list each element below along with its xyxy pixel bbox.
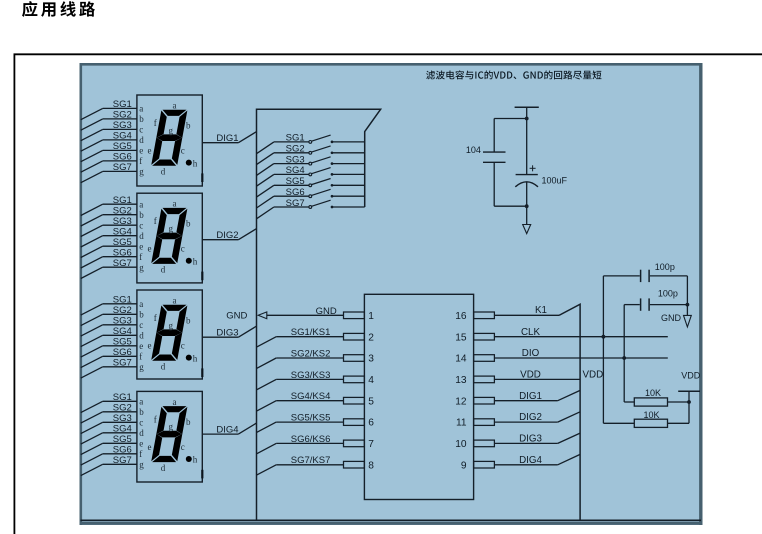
svg-text:d: d	[161, 265, 166, 275]
svg-text:c: c	[139, 320, 143, 330]
svg-text:9: 9	[461, 460, 467, 471]
svg-text:g: g	[169, 125, 174, 135]
svg-text:g: g	[169, 320, 174, 330]
svg-text:100p: 100p	[658, 289, 678, 299]
svg-text:10K: 10K	[645, 388, 661, 398]
svg-text:f: f	[139, 156, 142, 166]
svg-text:a: a	[139, 299, 143, 309]
svg-text:g: g	[139, 167, 144, 177]
svg-text:10: 10	[455, 439, 467, 450]
svg-text:SG2/KS2: SG2/KS2	[291, 349, 331, 360]
svg-text:SG6/KS6: SG6/KS6	[291, 434, 331, 445]
svg-text:e: e	[148, 340, 152, 350]
svg-text:e: e	[139, 146, 143, 156]
svg-text:DIG3: DIG3	[519, 434, 542, 445]
svg-text:f: f	[154, 216, 157, 226]
svg-text:d: d	[161, 463, 166, 473]
svg-text:SG3/KS3: SG3/KS3	[291, 370, 331, 381]
svg-text:SG6: SG6	[286, 187, 305, 198]
svg-text:d: d	[161, 167, 166, 177]
svg-text:100p: 100p	[655, 262, 675, 272]
svg-text:h: h	[193, 158, 198, 168]
svg-text:a: a	[173, 295, 177, 305]
svg-text:f: f	[154, 118, 157, 128]
svg-text:SG1/KS1: SG1/KS1	[291, 327, 331, 338]
svg-text:7: 7	[368, 439, 374, 450]
svg-text:SG4/KS4: SG4/KS4	[291, 391, 331, 402]
svg-text:DIG1: DIG1	[216, 133, 238, 144]
svg-text:b: b	[139, 407, 144, 417]
svg-text:f: f	[154, 313, 157, 323]
svg-text:a: a	[139, 397, 143, 407]
svg-text:K1: K1	[535, 305, 547, 316]
svg-text:DIG1: DIG1	[519, 391, 542, 402]
svg-text:4: 4	[368, 375, 374, 386]
svg-text:f: f	[139, 449, 142, 459]
svg-text:d: d	[139, 231, 144, 241]
svg-text:SG5/KS5: SG5/KS5	[291, 413, 331, 424]
svg-text:h: h	[193, 257, 198, 267]
svg-text:15: 15	[455, 332, 467, 343]
svg-text:1: 1	[368, 311, 374, 322]
svg-text:2: 2	[368, 332, 374, 343]
svg-text:h: h	[193, 455, 198, 465]
svg-text:SG7: SG7	[286, 198, 305, 209]
svg-text:DIG4: DIG4	[519, 455, 542, 466]
svg-text:16: 16	[455, 311, 467, 322]
svg-text:g: g	[139, 460, 144, 470]
svg-text:f: f	[139, 252, 142, 262]
svg-text:b: b	[186, 315, 191, 325]
svg-text:DIG2: DIG2	[519, 412, 542, 423]
svg-text:b: b	[139, 210, 144, 220]
svg-text:g: g	[139, 362, 144, 372]
svg-text:g: g	[139, 262, 144, 272]
svg-text:d: d	[139, 428, 144, 438]
svg-text:e: e	[148, 244, 152, 254]
svg-text:DIG4: DIG4	[216, 425, 238, 436]
svg-text:GND: GND	[316, 306, 337, 317]
svg-text:a: a	[173, 100, 177, 110]
svg-text:13: 13	[455, 375, 467, 386]
svg-text:GND: GND	[226, 310, 247, 321]
svg-text:c: c	[139, 220, 143, 230]
svg-text:DIG3: DIG3	[216, 328, 238, 339]
svg-text:CLK: CLK	[521, 327, 541, 338]
svg-text:14: 14	[455, 354, 467, 365]
svg-text:c: c	[181, 244, 185, 254]
svg-text:b: b	[139, 114, 144, 124]
svg-text:e: e	[139, 439, 143, 449]
svg-text:5: 5	[368, 396, 374, 407]
svg-text:f: f	[154, 414, 157, 424]
svg-text:3: 3	[368, 354, 374, 365]
svg-text:100uF: 100uF	[542, 176, 568, 186]
svg-text:e: e	[148, 442, 152, 452]
svg-text:10K: 10K	[643, 410, 659, 420]
svg-text:c: c	[181, 442, 185, 452]
svg-text:d: d	[139, 331, 144, 341]
svg-text:h: h	[193, 353, 198, 363]
svg-text:g: g	[169, 422, 174, 432]
svg-text:e: e	[148, 145, 152, 155]
svg-text:VDD: VDD	[681, 370, 701, 380]
svg-text:g: g	[169, 224, 174, 234]
svg-text:11: 11	[456, 418, 467, 429]
svg-text:a: a	[139, 199, 143, 209]
svg-text:DIG2: DIG2	[216, 230, 238, 241]
svg-text:GND: GND	[661, 313, 682, 323]
svg-text:b: b	[186, 120, 191, 130]
svg-text:c: c	[139, 125, 143, 135]
svg-text:SG4: SG4	[286, 165, 305, 176]
svg-text:c: c	[181, 145, 185, 155]
svg-text:6: 6	[368, 418, 374, 429]
svg-text:b: b	[186, 219, 191, 229]
svg-text:DIO: DIO	[522, 348, 540, 359]
svg-text:SG3: SG3	[286, 154, 305, 165]
svg-text:a: a	[173, 199, 177, 209]
svg-text:SG2: SG2	[286, 144, 305, 155]
svg-text:SG7/KS7: SG7/KS7	[291, 455, 331, 466]
svg-text:d: d	[139, 135, 144, 145]
svg-text:f: f	[139, 352, 142, 362]
svg-text:c: c	[139, 418, 143, 428]
svg-text:e: e	[139, 241, 143, 251]
svg-text:104: 104	[466, 145, 481, 155]
svg-text:c: c	[181, 340, 185, 350]
svg-text:SG5: SG5	[286, 176, 305, 187]
svg-text:SG1: SG1	[286, 133, 305, 144]
svg-text:a: a	[173, 397, 177, 407]
svg-text:e: e	[139, 341, 143, 351]
svg-text:VDD: VDD	[520, 370, 541, 381]
svg-text:12: 12	[455, 396, 467, 407]
svg-text:VDD: VDD	[583, 370, 604, 381]
svg-text:b: b	[139, 310, 144, 320]
svg-text:d: d	[161, 362, 166, 372]
svg-text:b: b	[186, 417, 191, 427]
svg-text:8: 8	[368, 460, 374, 471]
svg-text:a: a	[139, 104, 143, 114]
